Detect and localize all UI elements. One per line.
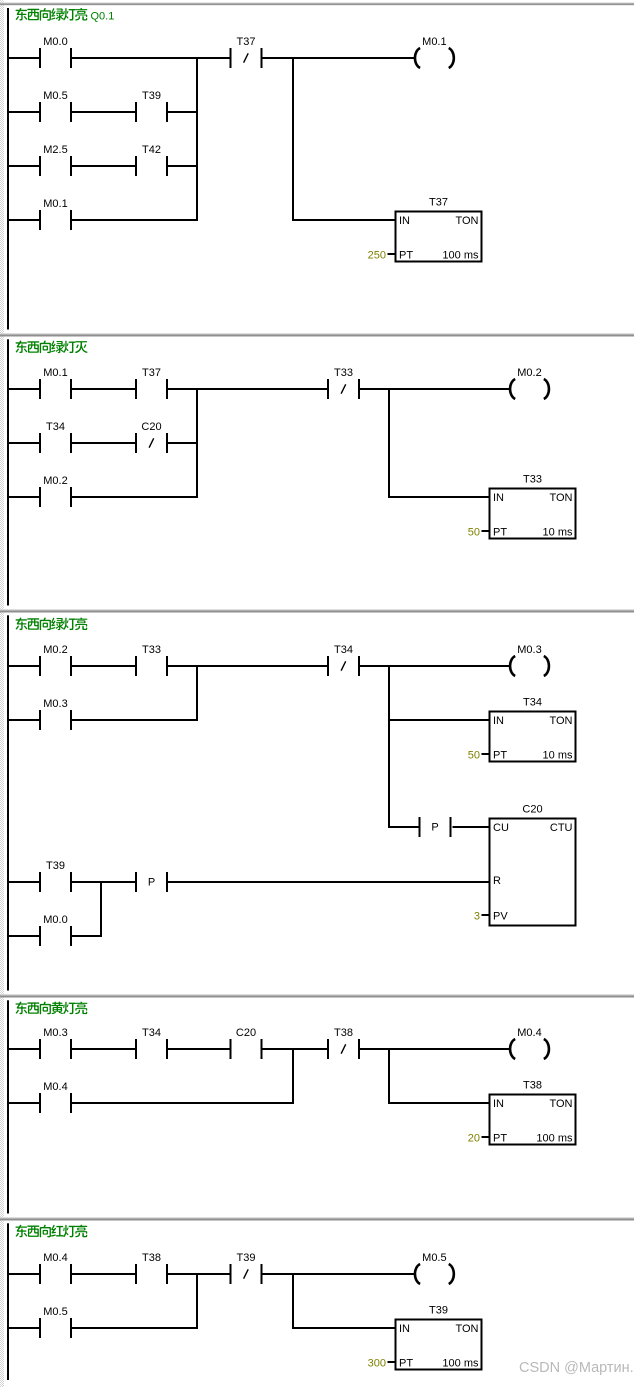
svg-text:TON: TON — [549, 492, 572, 504]
svg-text:IN: IN — [493, 1098, 504, 1110]
wire — [9, 496, 39, 498]
svg-text:T39: T39 — [237, 1252, 256, 1264]
wire — [72, 111, 135, 113]
left power rail network 1 — [7, 8, 9, 330]
M0.2 — [39, 475, 72, 507]
timer box T38 — [468, 1080, 576, 1145]
wire — [360, 388, 510, 390]
network 4 title — [16, 1002, 88, 1015]
svg-text:R: R — [493, 875, 501, 887]
svg-text:C20: C20 — [522, 804, 542, 816]
svg-text:T37: T37 — [237, 36, 256, 48]
svg-text:PT: PT — [399, 1358, 413, 1370]
wire — [9, 388, 39, 390]
M0.3 — [39, 698, 72, 730]
wire — [9, 1327, 39, 1329]
wire — [168, 388, 327, 390]
svg-text:PV: PV — [493, 911, 508, 923]
wire — [9, 719, 39, 721]
svg-text:100 ms: 100 ms — [442, 1358, 479, 1370]
wire to timer IN — [293, 1327, 396, 1329]
branch junction — [196, 665, 198, 721]
wire — [72, 665, 135, 667]
coil M0.2 — [510, 367, 549, 399]
svg-text:M0.5: M0.5 — [422, 1252, 446, 1264]
branch junction to timer — [292, 1273, 294, 1329]
wire — [72, 219, 198, 221]
wire — [9, 1102, 39, 1104]
svg-text:M0.4: M0.4 — [43, 1252, 67, 1264]
wire — [9, 881, 39, 883]
branch junction — [100, 881, 102, 937]
svg-text:T38: T38 — [142, 1252, 161, 1264]
svg-text:M2.5: M2.5 — [43, 144, 67, 156]
wire — [72, 935, 102, 937]
wire — [263, 1048, 328, 1050]
T34 — [39, 421, 72, 453]
coil M0.5 — [415, 1252, 454, 1284]
wire — [168, 442, 198, 444]
svg-text:CSDN @Мартин.: CSDN @Мартин. — [519, 1360, 634, 1376]
NC contact T34 — [327, 644, 360, 676]
svg-text:M0.1: M0.1 — [43, 367, 67, 379]
positive edge contact P — [135, 872, 168, 892]
svg-text:M0.0: M0.0 — [43, 914, 67, 926]
wire — [72, 881, 102, 883]
wire to timer IN — [389, 719, 490, 721]
wire — [9, 665, 39, 667]
coil M0.4 — [510, 1027, 549, 1059]
wire to timer IN — [389, 1102, 490, 1104]
svg-text:IN: IN — [399, 1323, 410, 1335]
M0.4 — [39, 1252, 72, 1284]
wire — [72, 1327, 198, 1329]
svg-text:T38: T38 — [334, 1027, 353, 1039]
svg-text:10 ms: 10 ms — [543, 750, 573, 762]
svg-text:T42: T42 — [142, 144, 161, 156]
left power rail network 5 — [7, 1223, 9, 1380]
M0.1 — [39, 198, 72, 230]
svg-text:100 ms: 100 ms — [442, 250, 479, 262]
wire — [263, 57, 415, 59]
svg-text:C20: C20 — [141, 421, 161, 433]
svg-text:T39: T39 — [429, 1305, 448, 1317]
branch junction to timer — [292, 57, 294, 221]
wire — [72, 442, 135, 444]
network separator — [0, 609, 634, 610]
branch junction — [196, 388, 198, 498]
svg-text:M0.2: M0.2 — [517, 367, 541, 379]
svg-text:C20: C20 — [236, 1027, 256, 1039]
T39 — [39, 860, 72, 892]
network 5 title — [16, 1225, 88, 1238]
left power rail network 2 — [7, 339, 9, 605]
wire — [72, 1048, 135, 1050]
svg-text:M0.2: M0.2 — [43, 644, 67, 656]
T38 — [135, 1252, 168, 1284]
wire to timer IN — [389, 496, 490, 498]
branch junction — [292, 1048, 294, 1104]
wire — [360, 665, 510, 667]
T39 — [135, 90, 168, 122]
wire — [168, 1273, 230, 1275]
svg-text:T34: T34 — [142, 1027, 161, 1039]
branch junction to timer — [388, 388, 390, 498]
C20 — [230, 1027, 263, 1059]
network 3 title — [16, 618, 88, 631]
svg-text:T37: T37 — [142, 367, 161, 379]
wire — [72, 719, 198, 721]
wire — [263, 1273, 415, 1275]
svg-text:20: 20 — [468, 1133, 480, 1145]
network separator — [0, 1217, 634, 1218]
NC contact T39 — [230, 1252, 263, 1284]
counter box C20 — [474, 804, 576, 926]
svg-text:CTU: CTU — [550, 822, 573, 834]
svg-text:PT: PT — [493, 527, 507, 539]
svg-text:T33: T33 — [523, 474, 542, 486]
M0.1 — [39, 367, 72, 399]
T33 — [135, 644, 168, 676]
svg-text:M0.3: M0.3 — [43, 698, 67, 710]
M0.0 — [39, 36, 72, 68]
svg-text:M0.0: M0.0 — [43, 36, 67, 48]
svg-text:M0.3: M0.3 — [43, 1027, 67, 1039]
svg-text:T33: T33 — [334, 367, 353, 379]
svg-text:T34: T34 — [46, 421, 65, 433]
top border band — [0, 2, 634, 5]
T37 — [135, 367, 168, 399]
network separator — [0, 333, 634, 334]
wire to counter CU — [453, 826, 490, 828]
network 1 title — [16, 8, 115, 22]
svg-text:T38: T38 — [523, 1080, 542, 1092]
svg-text:TON: TON — [549, 1098, 572, 1110]
wire — [9, 935, 39, 937]
left power rail network 3 — [7, 615, 9, 990]
M0.4 — [39, 1081, 72, 1113]
svg-text:50: 50 — [468, 750, 480, 762]
svg-text:PT: PT — [493, 1133, 507, 1145]
svg-text:M0.1: M0.1 — [422, 36, 446, 48]
wire — [72, 388, 135, 390]
left power rail network 4 — [7, 1000, 9, 1213]
NC contact T37 — [230, 36, 263, 68]
wire — [101, 881, 135, 883]
svg-text:M0.1: M0.1 — [43, 198, 67, 210]
M0.5 — [39, 90, 72, 122]
svg-text:TON: TON — [455, 215, 478, 227]
branch junction — [196, 57, 198, 221]
wire — [9, 165, 39, 167]
network 2 title — [16, 341, 88, 354]
svg-text:100 ms: 100 ms — [536, 1133, 573, 1145]
M0.0 — [39, 914, 72, 946]
T42 — [135, 144, 168, 176]
svg-text:M0.5: M0.5 — [43, 1306, 67, 1318]
timer box T33 — [468, 474, 576, 539]
svg-text:IN: IN — [493, 492, 504, 504]
wire — [360, 1048, 510, 1050]
svg-text:IN: IN — [399, 215, 410, 227]
svg-text:Q0.1: Q0.1 — [91, 11, 115, 23]
wire to timer IN — [293, 219, 396, 221]
svg-text:T34: T34 — [334, 644, 353, 656]
svg-text:T34: T34 — [523, 697, 542, 709]
M0.3 — [39, 1027, 72, 1059]
NC contact T38 — [327, 1027, 360, 1059]
wire — [168, 1048, 230, 1050]
svg-text:PT: PT — [399, 250, 413, 262]
svg-text:IN: IN — [493, 715, 504, 727]
NC contact T33 — [327, 367, 360, 399]
wire — [9, 1048, 39, 1050]
svg-text:300: 300 — [368, 1358, 386, 1370]
svg-text:TON: TON — [549, 715, 572, 727]
wire to edge contact — [389, 826, 419, 828]
svg-text:T39: T39 — [142, 90, 161, 102]
wire — [9, 219, 39, 221]
svg-text:T33: T33 — [142, 644, 161, 656]
wire — [72, 165, 135, 167]
positive edge contact P — [419, 817, 452, 837]
branch junction down to timer and counter — [388, 665, 390, 828]
M0.5 — [39, 1306, 72, 1338]
svg-text:T39: T39 — [46, 860, 65, 872]
wire — [72, 57, 230, 59]
svg-text:T37: T37 — [429, 197, 448, 209]
M2.5 — [39, 144, 72, 176]
svg-text:M0.2: M0.2 — [43, 475, 67, 487]
svg-text:TON: TON — [455, 1323, 478, 1335]
wire — [9, 57, 39, 59]
svg-text:10 ms: 10 ms — [543, 527, 573, 539]
wire — [168, 111, 198, 113]
wire — [168, 165, 198, 167]
branch junction to timer — [388, 1048, 390, 1104]
svg-text:PT: PT — [493, 750, 507, 762]
network separator — [0, 994, 634, 995]
branch junction — [196, 1273, 198, 1329]
coil M0.3 — [510, 644, 549, 676]
timer box T37 — [368, 197, 482, 262]
svg-text:M0.4: M0.4 — [43, 1081, 67, 1093]
M0.2 — [39, 644, 72, 676]
coil M0.1 — [415, 36, 454, 68]
wire — [9, 111, 39, 113]
svg-text:M0.4: M0.4 — [517, 1027, 541, 1039]
svg-text:P: P — [431, 822, 438, 834]
svg-text:M0.3: M0.3 — [517, 644, 541, 656]
timer box T34 — [468, 697, 576, 762]
svg-text:250: 250 — [368, 250, 386, 262]
NC contact C20 — [135, 421, 168, 453]
wire — [72, 1102, 294, 1104]
svg-text:3: 3 — [474, 911, 480, 923]
svg-text:CU: CU — [493, 822, 509, 834]
svg-text:50: 50 — [468, 527, 480, 539]
svg-text:M0.5: M0.5 — [43, 90, 67, 102]
wire — [72, 496, 198, 498]
wire — [9, 442, 39, 444]
wire — [72, 1273, 135, 1275]
wire to counter R — [168, 881, 490, 883]
wire — [168, 665, 327, 667]
T34 — [135, 1027, 168, 1059]
svg-text:P: P — [148, 877, 155, 889]
wire — [9, 1273, 39, 1275]
timer box T39 — [368, 1305, 482, 1370]
